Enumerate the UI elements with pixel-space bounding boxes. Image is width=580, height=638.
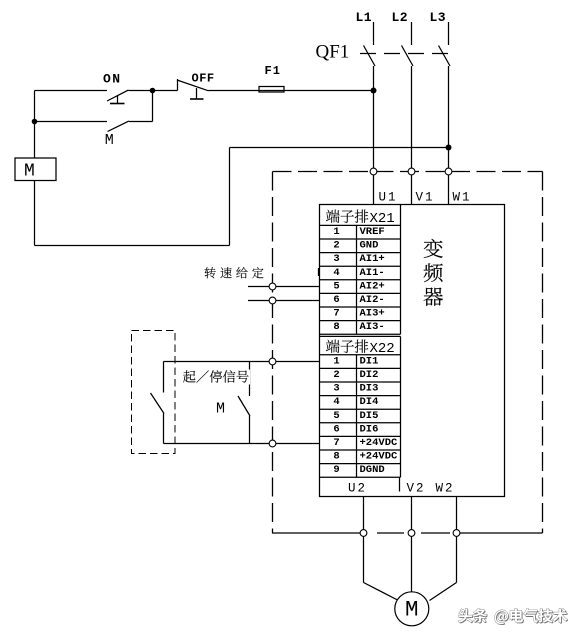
terminal X21 pin 5 AI2+ (320, 280, 401, 293)
svg-text:AI2-: AI2- (360, 294, 385, 306)
breaker QF1 linkage (dashed) (360, 53, 451, 55)
wire +24VDC return (164, 443, 320, 445)
svg-text:6: 6 (333, 294, 339, 306)
svg-text:DI2: DI2 (360, 369, 379, 381)
terminal X22 pin 2 DI2 (320, 369, 401, 382)
svg-text:1: 1 (333, 226, 339, 238)
terminal U1 entry circle (370, 168, 377, 175)
svg-text:9: 9 (333, 464, 339, 476)
svg-text:DGND: DGND (360, 464, 385, 476)
VFD enclosure dashed boundary top (273, 171, 543, 173)
AI1- stub tick (318, 268, 320, 276)
svg-text:L2: L2 (392, 10, 409, 25)
terminal circle +24VDC on boundary (269, 440, 276, 447)
terminal W1 entry circle (445, 168, 452, 175)
VFD enclosure bottom boundary (272, 532, 543, 534)
wire node A vertical (34, 91, 36, 122)
terminal X21 pin 2 GND (320, 240, 401, 253)
start/stop switch (external) (151, 362, 165, 444)
svg-text:5: 5 (333, 410, 339, 422)
terminal circle V2 on boundary (408, 530, 415, 537)
svg-text:AI1+: AI1+ (360, 253, 385, 265)
VFD enclosure dashed boundary right (542, 172, 544, 534)
wire node B to contactor coil (34, 122, 36, 159)
wire OFF to fuse F1 (209, 90, 374, 92)
wire coil M down (34, 181, 36, 246)
terminal X22 pin 6 DI6 (320, 423, 401, 436)
breaker QF1 pole 1 (L1) (364, 22, 376, 66)
svg-text:L1: L1 (356, 10, 373, 25)
wire V2 output (411, 497, 413, 593)
terminal circle DI1 on boundary (269, 358, 276, 365)
wire DI1 input (164, 361, 320, 363)
terminal X22 pin 8 +24VDC (320, 451, 401, 464)
svg-text:AI2+: AI2+ (360, 280, 385, 292)
junction on L3 phase (446, 145, 452, 151)
svg-text:DI1: DI1 (360, 355, 379, 367)
svg-text:2: 2 (333, 240, 339, 252)
speed reference label 转速给定 (205, 267, 216, 278)
terminal X21 pin 1 VREF (320, 226, 401, 239)
wire control loop right riser (229, 148, 231, 246)
motor M (395, 592, 429, 626)
svg-text:M: M (405, 597, 419, 623)
svg-text:DI6: DI6 (360, 423, 379, 435)
svg-text:V1: V1 (416, 191, 435, 205)
terminal X22 pin 5 DI5 (320, 410, 401, 423)
svg-text:F1: F1 (265, 64, 281, 78)
svg-text:X21: X21 (370, 211, 395, 227)
svg-text:AI1-: AI1- (360, 267, 385, 279)
svg-text:V2: V2 (407, 482, 426, 496)
wire L2 phase down to V1 (411, 66, 413, 205)
start/stop label 起/停信号 (182, 370, 251, 385)
svg-text:ON: ON (103, 72, 122, 87)
wire control loop to L3 tap (230, 147, 449, 149)
wire U2 to motor (364, 583, 399, 601)
svg-text:W1: W1 (453, 191, 472, 205)
svg-text:3: 3 (333, 253, 339, 265)
svg-text:8: 8 (333, 321, 339, 333)
terminal X22 pin 4 DI4 (320, 396, 401, 409)
svg-text:M: M (216, 401, 225, 418)
wire L3 phase down to W1 (448, 66, 450, 205)
svg-text:U2: U2 (348, 482, 367, 496)
svg-text:VREF: VREF (360, 226, 385, 238)
svg-text:8: 8 (333, 451, 339, 463)
svg-text:M: M (24, 162, 35, 182)
terminal X21 pin 3 AI1+ (320, 253, 401, 266)
svg-text:7: 7 (333, 437, 339, 449)
svg-text:AI3-: AI3- (360, 321, 385, 333)
terminal X22 pin 9 DGND (320, 464, 401, 477)
svg-text:QF1: QF1 (316, 42, 350, 63)
svg-text:+24VDC: +24VDC (360, 451, 399, 463)
wire AI2- analog input (248, 300, 320, 302)
terminal circle AI2+ on boundary (269, 283, 276, 290)
svg-text:W2: W2 (436, 482, 455, 496)
svg-text:U1: U1 (379, 191, 398, 205)
svg-text:DI5: DI5 (360, 410, 379, 422)
fuse F1 (259, 87, 284, 93)
pushbutton ON (normally open) (107, 90, 129, 104)
svg-text:DI3: DI3 (360, 383, 379, 395)
VFD label 变频器 (424, 239, 443, 258)
wire ON to junction J1 (129, 90, 178, 92)
svg-text:M: M (105, 132, 114, 149)
wire W2 output (456, 497, 458, 583)
terminal strip X22 header (320, 336, 401, 477)
svg-text:DI4: DI4 (360, 396, 379, 408)
pushbutton OFF (normally closed) (177, 79, 209, 99)
contactor coil M (15, 158, 56, 181)
svg-text:OFF: OFF (192, 72, 215, 86)
terminal V1 entry circle (408, 168, 415, 175)
wire W2 to motor (430, 583, 457, 601)
wire AI2+ analog input (248, 286, 320, 288)
svg-text:2: 2 (333, 369, 339, 381)
svg-text:4: 4 (333, 396, 339, 408)
wire L1 phase down to U1 (373, 66, 375, 205)
terminal X21 pin 7 AI3+ (320, 308, 401, 321)
terminal strip X21 header (320, 205, 401, 335)
terminal X21 pin 6 AI2- (320, 294, 401, 307)
wire U2 output (363, 497, 365, 583)
wire top from node A to ON button (35, 90, 108, 92)
svg-text:1: 1 (333, 355, 339, 367)
svg-text:3: 3 (333, 383, 339, 395)
svg-text:+24VDC: +24VDC (360, 437, 399, 449)
svg-text:4: 4 (333, 267, 339, 279)
table right edge stub below X22 (399, 477, 401, 491)
VFD (frequency inverter) U1 box (320, 205, 505, 497)
breaker QF1 pole 3 (L3) (439, 22, 451, 66)
svg-text:6: 6 (333, 423, 339, 435)
terminal X22 pin 3 DI3 (320, 383, 401, 396)
wire bottom of control loop (35, 245, 230, 247)
terminal X22 pin 1 DI1 (320, 355, 401, 368)
VFD enclosure dashed boundary left (272, 172, 274, 534)
junction on L1 phase (371, 88, 377, 94)
svg-text:L3: L3 (430, 10, 447, 25)
terminal X22 pin 7 +24VDC (320, 437, 401, 450)
junction J1 (150, 88, 156, 94)
junction node B (32, 119, 38, 125)
svg-text:GND: GND (360, 240, 379, 252)
terminal X21 pin 8 AI3- (320, 321, 401, 334)
auxiliary contact M (hold-in, parallel with ON) (35, 91, 153, 132)
terminal circle AI2- on boundary (269, 297, 276, 304)
svg-text:7: 7 (333, 308, 339, 320)
terminal circle U2 on boundary (360, 530, 367, 537)
terminal X21 pin 4 AI1- (320, 267, 401, 280)
start/stop dashed box (132, 331, 176, 454)
terminal circle W2 on boundary (453, 530, 460, 537)
breaker QF1 pole 2 (L2) (402, 22, 414, 66)
watermark 头条@电气技术 (459, 609, 568, 625)
relay contact M branch (238, 362, 250, 444)
svg-text:AI3+: AI3+ (360, 308, 385, 320)
svg-text:5: 5 (333, 280, 339, 292)
